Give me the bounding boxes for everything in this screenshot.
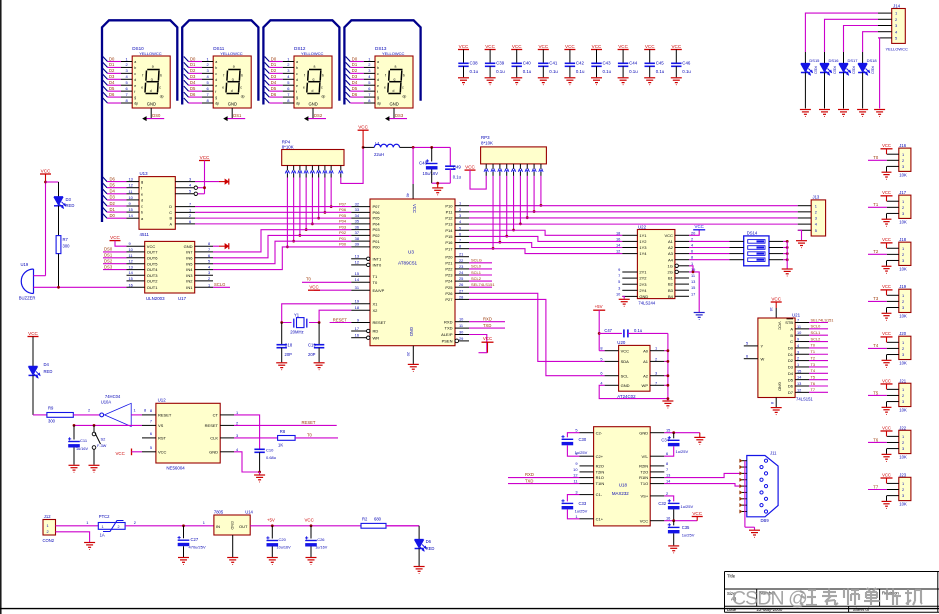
J11 pin 1	[764, 459, 767, 462]
wire P16 to U22 1Y3	[469, 243, 622, 248]
svg-text:7: 7	[189, 202, 191, 207]
wire DB9 ground bus	[744, 461, 746, 528]
svg-text:AT89C51: AT89C51	[398, 261, 418, 266]
svg-text:T2O: T2O	[640, 470, 648, 475]
svg-text:C: C	[790, 339, 793, 344]
svg-text:RED: RED	[66, 203, 75, 208]
svg-text:D3: D3	[110, 195, 116, 200]
svg-text:2: 2	[134, 520, 136, 525]
svg-text:3: 3	[902, 352, 904, 357]
svg-text:C2+: C2+	[596, 454, 604, 459]
U13 segment output D6	[103, 177, 107, 182]
svg-text:0.1u: 0.1u	[470, 69, 479, 74]
power port arrow	[219, 181, 225, 183]
svg-text:7: 7	[618, 273, 620, 278]
ground	[662, 400, 673, 402]
U18 pin 4 C2+	[580, 455, 594, 457]
svg-text:8: 8	[600, 346, 602, 351]
ground	[886, 213, 888, 218]
svg-text:C48: C48	[419, 160, 428, 165]
svg-text:P00: P00	[373, 245, 381, 250]
svg-text:2: 2	[691, 236, 693, 241]
resistor R2 680	[361, 523, 386, 528]
svg-text:VCC: VCC	[664, 233, 673, 238]
svg-text:15: 15	[355, 271, 359, 276]
wire P05 line	[195, 217, 351, 219]
svg-text:D2: D2	[271, 68, 277, 73]
U3 pin 6 P15	[455, 235, 469, 237]
net T5 wire	[868, 394, 887, 396]
svg-text:C40: C40	[523, 61, 532, 66]
svg-text:P05: P05	[339, 213, 347, 218]
U3 pin 4 P13	[455, 223, 469, 225]
ground	[886, 355, 888, 360]
bus entry wire	[346, 92, 351, 97]
svg-text:T0: T0	[373, 280, 378, 285]
bus entry wire	[103, 62, 108, 67]
svg-text:1: 1	[236, 410, 238, 415]
svg-text:T5: T5	[873, 390, 879, 395]
svg-text:U17: U17	[178, 296, 187, 301]
svg-text:11: 11	[797, 324, 801, 329]
svg-text:P07: P07	[339, 201, 347, 206]
svg-text:8*10K: 8*10K	[481, 141, 493, 146]
svg-text:D6: D6	[352, 92, 358, 97]
svg-text:T0: T0	[873, 155, 879, 160]
svg-text:b: b	[296, 66, 298, 70]
svg-text:18: 18	[355, 305, 359, 310]
net T6 wire	[868, 441, 887, 443]
U18 pin 3 C1-	[580, 494, 594, 496]
svg-text:2: 2	[459, 207, 461, 212]
U21 pin W	[744, 358, 758, 360]
bus entry wire	[265, 92, 270, 97]
svg-text:EA/VP: EA/VP	[373, 288, 385, 293]
svg-text:15: 15	[797, 368, 801, 373]
svg-text:U20: U20	[617, 340, 626, 345]
U3 pin 8 P17	[455, 248, 469, 250]
U17 pin 12 OUT5	[127, 263, 145, 265]
svg-text:Title: Title	[727, 574, 736, 579]
svg-text:D1: D1	[109, 62, 115, 67]
U21 pin 10 B net SCL1	[795, 334, 809, 336]
svg-text:OUT1: OUT1	[147, 285, 158, 290]
svg-text:VCC: VCC	[882, 143, 891, 148]
svg-text:20P: 20P	[308, 352, 316, 357]
svg-text:GND: GND	[778, 382, 783, 391]
U20 pin 2 A1	[650, 360, 664, 362]
LED DS18	[862, 52, 864, 64]
wire P02 line to U17 IN6	[213, 235, 351, 257]
capacitor C10 0.68u	[254, 448, 264, 450]
svg-text:0.1u: 0.1u	[549, 69, 558, 74]
wire J14 pin5 to ground	[878, 38, 880, 109]
svg-text:e: e	[377, 84, 379, 88]
svg-text:20MHz: 20MHz	[290, 330, 303, 335]
wire X2	[309, 310, 351, 322]
svg-text:+5V: +5V	[267, 517, 275, 522]
svg-text:g: g	[394, 77, 396, 81]
net T0 wire	[868, 159, 887, 161]
ground	[886, 496, 888, 501]
svg-text:D4: D4	[110, 189, 116, 194]
svg-text:f: f	[134, 90, 135, 94]
U3 pin 21 P20	[455, 256, 469, 258]
wire RP3 pin to P1 line	[526, 176, 528, 218]
wire RP3 pin to P1 line	[540, 176, 542, 206]
svg-text:IN2: IN2	[186, 279, 193, 284]
U22 pin 5 2Y3	[622, 283, 637, 285]
U17 pin 14 OUT3	[127, 274, 145, 276]
svg-text:MAX232: MAX232	[612, 491, 629, 496]
svg-text:DS15: DS15	[809, 58, 820, 63]
svg-text:VCC: VCC	[778, 322, 783, 331]
U13 input B	[175, 217, 195, 219]
svg-text:CT: CT	[213, 413, 219, 418]
svg-text:b: b	[403, 74, 405, 78]
ground	[886, 449, 888, 454]
net RESET wire from U12	[234, 424, 337, 426]
svg-text:12: 12	[129, 259, 133, 264]
capacitor C18 20P	[281, 323, 283, 345]
capacitor C49 0.1u	[449, 147, 451, 166]
ground	[89, 464, 100, 466]
bus entry wire	[346, 74, 351, 79]
U22 pin 17 B4	[675, 295, 689, 297]
svg-text:e: e	[303, 86, 305, 90]
MCU U3 AT89C51	[370, 199, 455, 346]
J13 pin 5	[798, 229, 811, 231]
svg-text:DS14: DS14	[747, 230, 758, 235]
svg-text:9: 9	[129, 241, 131, 246]
svg-text:P03: P03	[339, 224, 347, 229]
svg-text:DS0: DS0	[104, 247, 113, 252]
DS14 pin 5	[769, 259, 783, 261]
U18 pin 15 GND	[650, 432, 664, 434]
svg-text:D3: D3	[190, 74, 196, 79]
svg-text:J17: J17	[899, 190, 906, 195]
svg-text:VCC: VCC	[618, 44, 628, 49]
svg-text:U22: U22	[638, 224, 647, 229]
svg-text:C38: C38	[470, 61, 479, 66]
net label DS1 wire	[103, 257, 127, 259]
U17 pin 9 VCC	[127, 245, 145, 247]
svg-text:J18: J18	[899, 237, 906, 242]
svg-text:VCC: VCC	[200, 155, 210, 160]
U18 pin 7 T2O	[650, 471, 664, 473]
svg-text:J22: J22	[899, 425, 906, 430]
svg-text:C45: C45	[656, 61, 665, 66]
U18 pin 13 R1IN	[650, 477, 664, 479]
U3 pin 29 PSEN	[459, 340, 469, 342]
J13 pin 1	[798, 205, 811, 207]
svg-text:D: D	[169, 205, 172, 209]
svg-text:BUZZER: BUZZER	[19, 296, 36, 301]
ground	[886, 402, 888, 407]
svg-text:GND: GND	[230, 521, 234, 530]
svg-text:RED: RED	[871, 66, 875, 74]
ground	[408, 363, 419, 365]
U20 pin 3 A2	[650, 375, 664, 377]
svg-text:1: 1	[902, 152, 904, 157]
svg-text:f: f	[215, 90, 216, 94]
svg-text:C49: C49	[453, 164, 462, 169]
U3 pin 36 P03	[351, 229, 370, 231]
svg-text:J13: J13	[813, 194, 820, 199]
svg-text:1u/25V: 1u/25V	[681, 504, 694, 509]
svg-text:g: g	[313, 77, 315, 81]
wire U22 A to DS14	[689, 240, 730, 242]
svg-text:g: g	[215, 96, 217, 100]
U3 pin 28 P27	[455, 298, 469, 300]
svg-text:A0: A0	[643, 348, 649, 353]
svg-text:d: d	[215, 78, 217, 82]
wire U20 GND hook	[599, 385, 668, 398]
net label SCL0 at P22	[469, 268, 492, 270]
svg-text:GND: GND	[309, 102, 318, 107]
svg-text:TXD: TXD	[445, 326, 453, 331]
svg-text:C: C	[169, 211, 172, 215]
svg-text:T5: T5	[811, 374, 816, 379]
U21 pin 9 C net SCL2	[795, 341, 809, 343]
svg-text:f: f	[296, 90, 297, 94]
net SCLG at U17 IN1	[213, 286, 230, 288]
svg-text:8: 8	[150, 408, 152, 413]
svg-text:e: e	[141, 86, 143, 90]
ground	[796, 240, 807, 242]
svg-text:P03: P03	[373, 227, 381, 232]
U17 pin 15 OUT2	[127, 280, 145, 282]
ground	[771, 407, 782, 409]
svg-text:b: b	[322, 74, 324, 78]
U3 pin 3 P12	[455, 217, 469, 219]
svg-text:3: 3	[459, 213, 461, 218]
svg-text:T1: T1	[811, 349, 816, 354]
svg-text:U10A: U10A	[101, 400, 112, 405]
U21 pin 2 D2 net T2	[795, 360, 809, 362]
svg-text:U12: U12	[158, 398, 167, 403]
svg-text:D3: D3	[66, 197, 72, 202]
svg-text:d: d	[393, 89, 395, 93]
svg-text:IN7: IN7	[186, 250, 193, 255]
U22 pin 20 VCC	[675, 234, 689, 236]
svg-text:2: 2	[902, 252, 904, 257]
svg-text:5: 5	[208, 259, 210, 264]
wire P03 line to U17 IN7	[213, 230, 351, 252]
svg-text:D1: D1	[110, 207, 116, 212]
svg-text:5: 5	[618, 279, 620, 284]
svg-text:WR: WR	[373, 335, 380, 340]
svg-text:0.1u: 0.1u	[656, 69, 665, 74]
svg-text:d: d	[296, 78, 298, 82]
svg-text:GND: GND	[621, 383, 630, 388]
U13 segment output D5	[103, 183, 107, 188]
svg-text:T2: T2	[873, 249, 879, 254]
bus entry wire	[346, 80, 351, 85]
bus loop over display DS11	[182, 20, 258, 104]
svg-text:T1IN: T1IN	[596, 481, 605, 486]
svg-text:c: c	[402, 86, 404, 90]
svg-text:3: 3	[236, 433, 238, 438]
svg-text:Y1: Y1	[294, 312, 300, 317]
svg-text:8*10K: 8*10K	[282, 145, 294, 150]
U18 pin 11 T1IN	[580, 483, 594, 485]
wire RP4 pin to P0 line	[311, 178, 313, 224]
U13 segment output D2	[103, 201, 107, 206]
ground	[227, 557, 238, 559]
svg-text:1: 1	[902, 481, 904, 486]
wire U20 VCC	[599, 350, 604, 352]
wire DIP ground	[786, 241, 788, 268]
U3 pin 32 P07	[351, 206, 370, 208]
svg-text:C30: C30	[579, 437, 587, 442]
svg-text:J21: J21	[899, 378, 906, 383]
U3 pin 24 P23	[455, 274, 469, 276]
svg-text:26: 26	[459, 282, 463, 287]
svg-text:VCC: VCC	[110, 235, 120, 240]
wire P15 to U22 1Y2	[469, 236, 622, 241]
ground	[84, 542, 95, 544]
svg-text:VCC: VCC	[459, 44, 469, 49]
svg-text:b: b	[141, 211, 143, 215]
U17 pin 3 IN3	[195, 274, 213, 276]
svg-text:c: c	[321, 86, 323, 90]
svg-text:X2: X2	[373, 308, 379, 313]
bus entry wire	[184, 68, 189, 73]
svg-text:11: 11	[129, 189, 133, 194]
svg-text:g: g	[134, 96, 136, 100]
capacitor C30 1u/25V	[567, 433, 579, 438]
svg-text:2: 2	[815, 209, 817, 214]
digit select net DS0	[150, 108, 152, 119]
svg-text:RST: RST	[158, 436, 167, 441]
svg-text:F-3W: F-3W	[97, 444, 107, 448]
svg-text:21: 21	[459, 252, 463, 257]
svg-text:6: 6	[150, 431, 152, 436]
wire P26 to SDA	[469, 293, 605, 361]
svg-text:1: 1	[189, 207, 191, 212]
svg-text:1: 1	[655, 346, 657, 351]
capacitor C11 1u/16V	[73, 425, 75, 439]
bus entry wire	[103, 68, 108, 73]
svg-text:1: 1	[797, 362, 799, 367]
svg-text:J16: J16	[899, 143, 906, 148]
svg-text:P04: P04	[339, 219, 347, 224]
wire R9 to inverter	[73, 414, 100, 416]
bus entry wire	[184, 92, 189, 97]
U18 pin 2 VS+	[650, 495, 664, 497]
svg-text:1u/16V: 1u/16V	[315, 546, 328, 550]
U3 pin 18 X2	[351, 309, 370, 311]
svg-text:6: 6	[666, 451, 668, 456]
svg-text:1: 1	[134, 408, 136, 413]
svg-text:D0: D0	[190, 56, 196, 61]
wire 7805 OUT rail	[250, 525, 419, 527]
svg-text:T0: T0	[306, 276, 312, 281]
U3 pin 31 EA/VP	[351, 289, 370, 291]
svg-text:5: 5	[459, 225, 461, 230]
U3 pin 23 P22	[455, 268, 469, 270]
U20 pin 8 VCC	[605, 350, 619, 352]
svg-text:P02: P02	[339, 230, 347, 235]
svg-text:15: 15	[666, 428, 670, 433]
svg-text:B3: B3	[668, 288, 674, 293]
svg-text:P17: P17	[445, 246, 453, 251]
svg-text:2: 2	[88, 408, 90, 413]
svg-text:1u/25V: 1u/25V	[682, 533, 695, 538]
svg-text:VCC: VCC	[465, 165, 475, 170]
U21 74LS151	[775, 308, 777, 318]
wire CLK to R8	[234, 437, 278, 439]
U3 pin 16 WR	[351, 337, 366, 339]
svg-text:1: 1	[902, 434, 904, 439]
net TXD wire to U18	[508, 483, 580, 485]
svg-text:P01: P01	[339, 236, 347, 241]
svg-text:b: b	[215, 66, 217, 70]
svg-text:7805: 7805	[214, 509, 224, 514]
wire J14 pin to LED	[825, 19, 879, 52]
svg-text:U18: U18	[619, 483, 628, 488]
svg-text:15: 15	[129, 276, 133, 281]
U18 pin 6 VS-	[650, 455, 664, 457]
U3 pin 19 X1	[351, 303, 370, 305]
svg-text:C47: C47	[604, 328, 612, 333]
svg-text:D3: D3	[271, 74, 277, 79]
wire DS14 to ground bus	[783, 247, 787, 249]
svg-text:6: 6	[691, 249, 693, 254]
svg-text:0.1u: 0.1u	[629, 69, 638, 74]
svg-text:D4: D4	[352, 80, 358, 85]
svg-text:D5: D5	[271, 86, 277, 91]
ground	[874, 109, 885, 111]
svg-text:RESET: RESET	[373, 320, 387, 325]
svg-text:D5: D5	[352, 86, 358, 91]
svg-text:RESET: RESET	[158, 413, 172, 418]
svg-text:T1: T1	[373, 274, 378, 279]
U21 GND pin 8	[775, 398, 777, 408]
wire DS14 to ground bus	[783, 253, 787, 255]
svg-text:T4: T4	[873, 343, 879, 348]
svg-text:2Y1: 2Y1	[639, 270, 647, 275]
svg-text:D0: D0	[110, 213, 116, 218]
svg-text:Sheet of: Sheet of	[853, 607, 870, 612]
svg-text:c: c	[141, 205, 143, 209]
net label DS2 wire	[103, 263, 127, 265]
inductor L1 22uH	[363, 146, 374, 148]
svg-text:DS2: DS2	[104, 259, 113, 264]
svg-text:38: 38	[355, 236, 359, 241]
wire J14 pin to LED	[844, 26, 879, 53]
svg-text:A1: A1	[668, 239, 674, 244]
digit glyph	[309, 69, 322, 71]
svg-text:D2: D2	[109, 68, 115, 73]
U13 segment output D4	[103, 189, 107, 194]
svg-text:e: e	[222, 86, 224, 90]
svg-text:1Y2: 1Y2	[639, 239, 647, 244]
svg-text:2: 2	[902, 393, 904, 398]
svg-text:8: 8	[770, 402, 774, 404]
svg-text:SCL2: SCL2	[811, 336, 821, 341]
bus entry wire	[184, 86, 189, 91]
wire 7805 GND	[232, 535, 234, 557]
svg-text:15: 15	[691, 285, 695, 290]
U13 segment output D3	[103, 195, 107, 200]
svg-text:RESET: RESET	[333, 317, 347, 322]
svg-text:IN4: IN4	[186, 267, 193, 272]
net RXD at U3	[469, 321, 505, 323]
svg-text:RED: RED	[426, 546, 435, 551]
svg-text:P12: P12	[445, 216, 453, 221]
